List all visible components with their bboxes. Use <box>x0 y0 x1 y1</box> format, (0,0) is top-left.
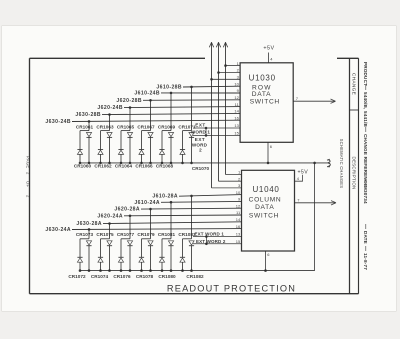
wire J620-28A to U1040 <box>141 207 242 210</box>
svg-text:15: 15 <box>236 239 241 244</box>
svg-text:SWITCH: SWITCH <box>250 99 280 106</box>
diode CR1078 <box>139 257 144 262</box>
wire column 5 tee <box>162 238 171 240</box>
svg-text:2: 2 <box>25 172 30 175</box>
svg-text:11: 11 <box>236 210 241 215</box>
svg-text:16: 16 <box>234 115 239 120</box>
diode CR1083 <box>189 241 194 246</box>
svg-text:J610-24B: J610-24B <box>134 90 160 96</box>
wire column 2 riser <box>109 115 111 131</box>
bus junctions <box>181 162 184 165</box>
diode CR1072 <box>77 257 82 262</box>
U1040 pin 6 wire to bus <box>265 251 267 271</box>
svg-text:CHANGE REFERENCE: CHANGE REFERENCE <box>363 134 368 187</box>
junction to U1030 <box>224 64 227 67</box>
wire column 5 riser <box>170 202 172 239</box>
wire column 6 riser <box>191 196 193 239</box>
diode CR1060 <box>77 150 82 155</box>
diode CR1063 <box>107 133 112 138</box>
svg-text:10: 10 <box>236 190 241 195</box>
bottom bank common bus <box>80 270 315 272</box>
frame left border <box>29 58 31 293</box>
svg-text:CR1061: CR1061 <box>76 125 94 130</box>
svg-text:CR1072: CR1072 <box>68 274 86 279</box>
svg-text:CR1076: CR1076 <box>113 274 131 279</box>
wire J630-24B to U1030 <box>72 120 240 121</box>
svg-text:J610-28B: J610-28B <box>156 85 182 91</box>
svg-text:2: 2 <box>25 195 30 198</box>
bus junctions <box>99 269 102 272</box>
diode CR1064 <box>118 150 123 155</box>
svg-text:4: 4 <box>297 176 300 181</box>
U1040 pin 7 output wire with arrow <box>295 202 336 204</box>
change box divider <box>350 109 359 111</box>
svg-text:CR1081: CR1081 <box>158 232 176 237</box>
diode CR1073 <box>86 241 91 246</box>
svg-text:CR1065: CR1065 <box>117 125 135 130</box>
svg-text:2: 2 <box>238 176 241 181</box>
diode CR1061 <box>86 133 91 138</box>
U1040 pin 4 +5V stub <box>295 175 303 181</box>
diode CR1069 <box>168 133 173 138</box>
wire column 4 tee <box>142 238 151 240</box>
svg-text:PRODUCT: PRODUCT <box>363 62 368 86</box>
svg-text:5440/B, 5441/B: 5440/B, 5441/B <box>363 92 368 127</box>
svg-text:15: 15 <box>234 131 239 136</box>
diode CR1079 <box>148 241 153 246</box>
wire EXT WORD 1 to U1040 pin 13 <box>193 236 242 238</box>
wire EXT WORD 2 to U1040 pin 15 <box>193 243 242 245</box>
svg-text:CR1082: CR1082 <box>186 274 204 279</box>
svg-text:SCHEMATIC CHANGES: SCHEMATIC CHANGES <box>339 139 344 189</box>
margin rule segments <box>365 85 367 90</box>
op-amp U1030 ROW DATA SWITCH box <box>240 63 293 143</box>
wire column 1 tee <box>80 130 89 132</box>
wire column 1 riser <box>88 229 90 238</box>
svg-text:J620-28B: J620-28B <box>116 98 142 104</box>
bus junctions <box>140 269 143 272</box>
wire J610-24A to U1040 <box>161 200 242 203</box>
diode CR1065 <box>127 133 132 138</box>
top bank common bus <box>80 162 328 164</box>
bus junctions <box>140 162 143 165</box>
svg-text:DATA: DATA <box>252 91 271 98</box>
svg-text:CR1078: CR1078 <box>136 274 154 279</box>
wire J630-28B to U1030 <box>102 113 240 114</box>
svg-text:12: 12 <box>236 203 241 208</box>
svg-text:4: 4 <box>270 56 273 61</box>
diode CR1070 <box>180 150 185 155</box>
svg-text:CR1080: CR1080 <box>158 274 176 279</box>
svg-text:CR1067: CR1067 <box>137 125 155 130</box>
svg-text:12: 12 <box>234 95 239 100</box>
svg-text:J620-28A: J620-28A <box>114 207 140 213</box>
frame top border right segment <box>337 57 359 59</box>
wire EXT WORD 2 to U1030 pin 15 <box>193 134 240 136</box>
svg-text:J610-24A: J610-24A <box>134 200 160 206</box>
wire column 3 tee <box>121 238 130 240</box>
svg-text:CR1073: CR1073 <box>76 232 94 237</box>
svg-text:EXT WORD 2: EXT WORD 2 <box>196 239 226 244</box>
svg-text:14: 14 <box>236 217 241 222</box>
bus chassis squiggle terminal <box>327 159 330 167</box>
wire column 3 riser <box>129 108 131 131</box>
diode CR1081 <box>168 241 173 246</box>
svg-text:SWITCH: SWITCH <box>249 213 279 220</box>
svg-text:J620-24B: J620-24B <box>97 105 123 111</box>
svg-text:CR1079: CR1079 <box>137 232 155 237</box>
wire column 6 riser <box>191 87 193 131</box>
wire J630-24A to U1040 <box>72 228 242 231</box>
svg-text:16: 16 <box>236 224 241 229</box>
frame top border left segment <box>30 57 206 59</box>
wire column 2 riser <box>109 224 111 239</box>
wire column 1 riser <box>88 121 90 130</box>
op-amp U1040 COLUMN DATA SWITCH box <box>242 170 295 251</box>
supply riser wire with up arrow <box>209 42 213 47</box>
diode CR1071 <box>189 133 194 138</box>
U1030 pin 6 wire to bus <box>267 142 269 163</box>
diode CR1077 <box>127 241 132 246</box>
ext word tie wire <box>205 128 207 135</box>
wire J610-28B to U1030 <box>183 85 240 88</box>
svg-text:7: 7 <box>296 96 299 101</box>
svg-text:14: 14 <box>234 109 239 114</box>
svg-text:PAGE: PAGE <box>25 156 30 169</box>
svg-text:CR1068: CR1068 <box>156 163 174 168</box>
svg-text:1: 1 <box>237 61 240 66</box>
wire column 4 riser <box>150 100 152 130</box>
svg-text:J630-24A: J630-24A <box>45 227 71 233</box>
junction to U1030 <box>210 78 213 81</box>
svg-text:2: 2 <box>199 148 202 153</box>
wire J610-28A to U1040 <box>179 195 242 197</box>
svg-text:CR1066: CR1066 <box>135 163 153 168</box>
wire column 4 riser <box>150 209 152 239</box>
svg-text:+5V: +5V <box>298 169 309 175</box>
diode CR1066 <box>139 150 144 155</box>
svg-text:J630-24B: J630-24B <box>45 119 71 125</box>
svg-text:CR1074: CR1074 <box>91 274 109 279</box>
svg-text:J630-28A: J630-28A <box>76 221 102 227</box>
bus junctions <box>181 269 184 272</box>
svg-text:J630-28B: J630-28B <box>75 112 101 118</box>
svg-text:EXT WORD 1: EXT WORD 1 <box>195 231 225 236</box>
wire J610-24B to U1030 <box>161 92 240 94</box>
frame bottom border <box>30 293 359 295</box>
diode CR1074 <box>98 257 103 262</box>
svg-text:CR1062: CR1062 <box>94 163 112 168</box>
svg-text:1: 1 <box>238 170 241 175</box>
svg-text:EXT: EXT <box>195 137 205 142</box>
svg-text:6: 6 <box>267 252 270 257</box>
diode CR1068 <box>159 150 164 155</box>
diode CR1062 <box>98 150 103 155</box>
bus junctions <box>120 162 123 165</box>
svg-text:11: 11 <box>235 102 240 107</box>
svg-text:DESCRIPTION: DESCRIPTION <box>351 157 356 190</box>
svg-text:+5V: +5V <box>263 46 274 52</box>
svg-text:CR1070: CR1070 <box>192 166 210 171</box>
wire column 1 tee <box>80 238 89 240</box>
svg-text:M30734: M30734 <box>363 186 368 204</box>
svg-text:OF: OF <box>25 181 30 188</box>
svg-text:2: 2 <box>237 68 240 73</box>
svg-text:CR1060: CR1060 <box>74 163 92 168</box>
wire column 5 tee <box>162 130 171 132</box>
diode CR1080 <box>159 257 164 262</box>
svg-text:READOUT PROTECTION: READOUT PROTECTION <box>167 284 296 294</box>
svg-text:CR1075: CR1075 <box>96 232 114 237</box>
svg-text:CR1077: CR1077 <box>117 232 135 237</box>
bus junctions <box>79 162 82 165</box>
frame right inner border <box>349 58 351 293</box>
wire J620-24A to U1040 <box>124 214 242 217</box>
wire J630-28A to U1040 <box>103 222 242 224</box>
svg-text:CR1063: CR1063 <box>96 125 114 130</box>
svg-text:COLUMN: COLUMN <box>249 197 282 204</box>
ext word tie wire (bottom) <box>205 237 207 244</box>
svg-text:6: 6 <box>270 144 273 149</box>
svg-text:3: 3 <box>238 183 241 188</box>
bus junctions <box>161 162 164 165</box>
wire column 6 tee <box>183 238 192 240</box>
svg-text:WORD 1: WORD 1 <box>191 129 211 134</box>
supply riser wire with up arrow <box>223 42 227 47</box>
supply riser wire with up arrow <box>216 42 220 47</box>
wire column 5 riser <box>170 93 172 131</box>
diode CR1082 <box>180 257 185 262</box>
svg-text:13: 13 <box>236 232 241 237</box>
svg-text:13: 13 <box>234 123 239 128</box>
svg-text:U1030: U1030 <box>249 73 276 82</box>
svg-text:11-8-77: 11-8-77 <box>363 253 368 270</box>
svg-text:DATE: DATE <box>363 231 368 244</box>
diode CR1076 <box>118 257 123 262</box>
U1030 pin 7 output wire with arrow <box>293 100 334 102</box>
svg-text:10: 10 <box>234 81 239 86</box>
svg-text:9: 9 <box>237 88 240 93</box>
bus junctions <box>79 269 82 272</box>
svg-text:J620-24A: J620-24A <box>97 213 123 219</box>
wire J620-24B to U1030 <box>124 107 240 108</box>
svg-text:9: 9 <box>238 197 241 202</box>
wire EXT WORD 1 to U1030 pin 13 <box>193 127 240 129</box>
svg-text:CHANGE: CHANGE <box>350 73 356 95</box>
diode CR1075 <box>107 241 112 246</box>
wire column 3 riser <box>129 216 131 239</box>
svg-text:7: 7 <box>297 198 300 203</box>
bus drop wire to bottom bank <box>313 162 316 165</box>
junction to U1030 <box>217 71 220 74</box>
svg-text:J610-28A: J610-28A <box>152 194 178 200</box>
bus junctions <box>161 269 164 272</box>
bus junctions <box>99 162 102 165</box>
diode CR1067 <box>148 133 153 138</box>
wire column 6 tee <box>183 130 192 132</box>
wire J620-28B to U1030 <box>143 99 240 102</box>
wire column 4 tee <box>142 130 151 132</box>
U1030 pin 4 +5V stub <box>268 53 270 63</box>
wire column 3 tee <box>121 130 130 132</box>
svg-text:CR1064: CR1064 <box>115 163 133 168</box>
frame right outer border <box>358 58 360 293</box>
svg-text:CR1069: CR1069 <box>158 125 176 130</box>
svg-text:U1040: U1040 <box>252 185 279 194</box>
wire column 2 tee <box>101 130 110 132</box>
wire column 2 tee <box>101 238 110 240</box>
svg-text:EXT: EXT <box>195 122 205 127</box>
bus junctions <box>120 269 123 272</box>
svg-text:3: 3 <box>237 75 240 80</box>
svg-text:DATA: DATA <box>255 204 274 211</box>
